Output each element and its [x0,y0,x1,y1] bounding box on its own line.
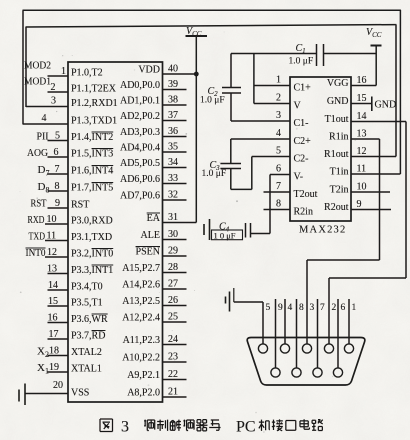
svg-text:37: 37 [168,110,178,121]
svg-text:3: 3 [121,419,129,436]
svg-text:R1out: R1out [324,149,349,160]
svg-text:VDD: VDD [138,65,160,76]
svg-text:24: 24 [168,334,178,345]
svg-text:T1in: T1in [330,167,349,178]
svg-text:1.0 μF: 1.0 μF [202,169,227,179]
svg-text:36: 36 [168,126,178,137]
svg-text:AD7,P0.6: AD7,P0.6 [120,191,160,202]
svg-text:1 0 μF: 1 0 μF [214,230,236,240]
svg-text:10: 10 [47,214,57,225]
svg-text:3: 3 [310,303,315,313]
svg-text:P3.5,T1: P3.5,T1 [71,298,103,309]
svg-text:VSS: VSS [71,388,89,399]
svg-text:7: 7 [55,164,60,175]
svg-text:A14,P2.6: A14,P2.6 [122,280,160,291]
svg-text:AD0,P0.0: AD0,P0.0 [120,80,160,91]
svg-text:AD3,P0.3: AD3,P0.3 [120,127,160,138]
svg-text:7: 7 [276,181,281,192]
svg-text:INT0: INT0 [26,247,46,259]
svg-text:29: 29 [168,246,178,257]
svg-text:C1-: C1- [294,118,309,129]
svg-text:EA: EA [147,213,161,224]
svg-text:38: 38 [168,95,178,106]
svg-text:34: 34 [168,157,178,168]
svg-text:RST: RST [71,200,89,211]
svg-text:9: 9 [55,198,60,209]
svg-text:18: 18 [49,346,59,357]
svg-text:12: 12 [357,146,367,157]
svg-text:5: 5 [266,303,271,313]
svg-text:AD2,P0.2: AD2,P0.2 [120,111,160,122]
svg-text:16: 16 [357,75,367,86]
svg-text:A15,P2.7: A15,P2.7 [122,263,160,274]
svg-text:31: 31 [168,212,178,223]
svg-text:T2in: T2in [330,185,349,196]
svg-text:20: 20 [53,380,63,391]
svg-text:P3.0,RXD: P3.0,RXD [71,216,113,227]
svg-text:RST: RST [31,198,47,210]
svg-text:C1+: C1+ [294,83,312,94]
svg-text:P1.6,INT4: P1.6,INT4 [71,166,113,177]
svg-text:GND: GND [327,96,349,107]
svg-text:R2in: R2in [294,207,313,218]
svg-text:1: 1 [61,66,66,77]
svg-text:T2out: T2out [294,189,318,200]
svg-text:P3.6,WR: P3.6,WR [71,314,108,325]
svg-text:6: 6 [341,303,346,313]
svg-text:PSEN: PSEN [136,247,160,258]
svg-text:XTAL2: XTAL2 [71,347,102,358]
svg-text:PII: PII [37,131,49,143]
svg-text:14: 14 [357,111,367,122]
svg-text:C2+: C2+ [294,136,312,147]
svg-text:A10,P2.2: A10,P2.2 [122,353,160,364]
svg-text:T1out: T1out [325,114,349,125]
svg-text:39: 39 [168,79,178,90]
svg-text:A13,P2.5: A13,P2.5 [122,296,160,307]
svg-text:P1.4,INT2: P1.4,INT2 [71,132,113,143]
svg-text:2: 2 [51,82,56,93]
svg-text:P3.1,TXD: P3.1,TXD [71,232,112,243]
svg-text:P1.3,TXD1: P1.3,TXD1 [71,116,117,127]
svg-text:1: 1 [352,303,357,313]
svg-text:14: 14 [48,280,58,291]
svg-text:8: 8 [299,303,304,313]
svg-text:32: 32 [168,190,178,201]
svg-text:GND: GND [375,100,397,111]
svg-text:6: 6 [54,147,59,158]
svg-text:A8,P2.0: A8,P2.0 [127,388,160,399]
svg-text:V-: V- [294,172,304,183]
svg-text:PC: PC [236,419,256,436]
svg-text:19: 19 [49,362,59,373]
svg-text:P1.5,INT3: P1.5,INT3 [71,149,113,160]
svg-text:9: 9 [278,303,283,313]
svg-text:4: 4 [276,128,281,139]
svg-text:AOG: AOG [27,147,48,159]
svg-text:4: 4 [42,113,47,124]
svg-text:V: V [294,101,302,112]
svg-text:35: 35 [168,142,178,153]
svg-text:P1.0,T2: P1.0,T2 [71,68,103,79]
svg-text:P1.2,RXD1: P1.2,RXD1 [71,98,118,109]
svg-text:5: 5 [276,146,281,157]
svg-text:11: 11 [47,231,57,242]
svg-text:P1.7,INT5: P1.7,INT5 [71,183,113,194]
svg-text:AD6,P0.6: AD6,P0.6 [120,174,160,185]
svg-text:10: 10 [357,182,367,193]
svg-text:ALE: ALE [141,230,160,241]
svg-text:22: 22 [168,369,178,380]
svg-text:R1in: R1in [329,132,348,143]
svg-text:A9,P2.1: A9,P2.1 [127,370,160,381]
svg-text:RXD: RXD [28,214,45,226]
svg-text:MOD2: MOD2 [24,60,51,72]
svg-text:8: 8 [55,181,60,192]
svg-text:23: 23 [168,352,178,363]
svg-text:P1.1,T2EX: P1.1,T2EX [71,84,117,95]
svg-text:P3.7,RD: P3.7,RD [71,331,105,342]
svg-text:40: 40 [168,64,178,75]
svg-text:C2-: C2- [294,154,309,165]
svg-text:9: 9 [357,199,362,210]
svg-text:MOD1: MOD1 [24,76,51,88]
svg-text:17: 17 [49,329,59,340]
svg-text:27: 27 [168,279,178,290]
svg-text:1.0 μF: 1.0 μF [200,96,225,106]
svg-text:11: 11 [357,164,367,175]
svg-text:13: 13 [47,264,57,275]
svg-text:MAX232: MAX232 [299,225,346,236]
svg-text:5: 5 [55,131,60,142]
svg-text:P3.2,INT0: P3.2,INT0 [71,249,113,260]
svg-text:3: 3 [51,96,56,107]
svg-text:A12,P2.4: A12,P2.4 [122,313,160,324]
svg-text:28: 28 [168,262,178,273]
svg-text:1.0 μF: 1.0 μF [289,57,314,67]
svg-text:25: 25 [168,312,178,323]
svg-text:2: 2 [332,303,337,313]
svg-text:6: 6 [276,164,281,175]
svg-text:16: 16 [48,313,58,324]
svg-text:P3.3,INT1: P3.3,INT1 [71,265,113,276]
svg-text:15: 15 [48,296,58,307]
svg-text:12: 12 [47,247,57,258]
svg-text:30: 30 [168,229,178,240]
svg-text:R2out: R2out [324,202,349,213]
svg-text:26: 26 [168,295,178,306]
svg-text:13: 13 [357,129,367,140]
svg-text:8: 8 [276,199,281,210]
svg-text:AD4,P0.4: AD4,P0.4 [120,143,160,154]
svg-text:33: 33 [168,173,178,184]
svg-text:15: 15 [357,93,367,104]
svg-text:AD5,P0.5: AD5,P0.5 [120,158,160,169]
svg-text:21: 21 [168,387,178,398]
svg-text:2: 2 [276,93,281,104]
svg-text:TXD: TXD [29,231,46,243]
svg-text:P3.4,T0: P3.4,T0 [71,282,103,293]
svg-text:XTAL1: XTAL1 [71,364,102,375]
svg-text:1: 1 [276,75,281,86]
svg-text:VGG: VGG [327,78,349,89]
svg-text:7: 7 [320,303,325,313]
svg-text:A11,P2.3: A11,P2.3 [123,335,160,346]
svg-text:AD1,P0.1: AD1,P0.1 [120,96,160,107]
svg-text:3: 3 [276,110,281,121]
svg-text:4: 4 [288,303,293,313]
